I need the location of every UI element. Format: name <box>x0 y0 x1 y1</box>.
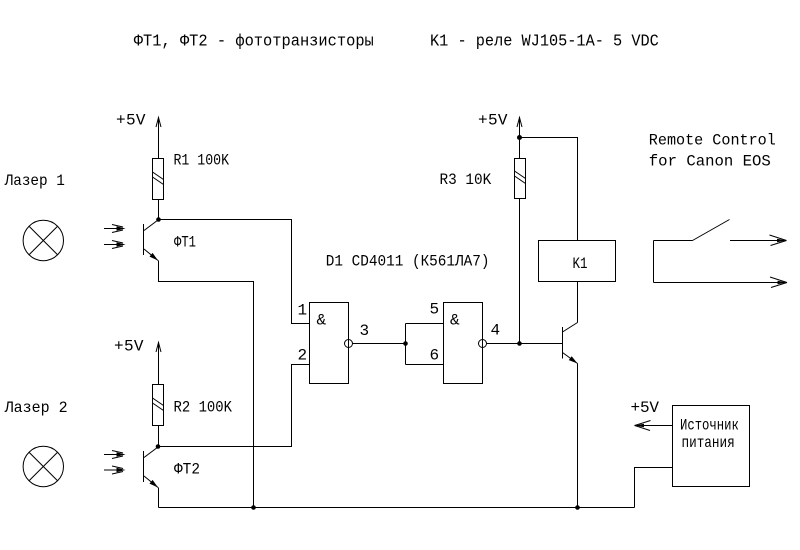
lamp 2 (laser source) <box>23 446 63 486</box>
wire gate2 output to transistor base <box>487 343 563 345</box>
light arrow 2 to ФТ2 <box>104 466 126 474</box>
wire ФТ1 emitter to ground rail <box>159 261 254 508</box>
wire power supply to ground rail <box>635 468 673 508</box>
wire R1 bottom to collector node <box>158 200 160 220</box>
output arrow bottom <box>654 277 788 288</box>
ground rail <box>159 507 635 509</box>
light arrow 2 to ФТ1 <box>104 241 126 249</box>
svg-text:1: 1 <box>298 302 308 320</box>
svg-text:4: 4 <box>491 322 501 340</box>
svg-text:&: & <box>317 312 327 330</box>
light arrow 1 to ФТ2 <box>104 451 126 459</box>
lamp 1 (laser source) <box>23 220 63 260</box>
svg-text:+5V: +5V <box>116 112 146 130</box>
resistor R3 <box>515 159 526 199</box>
svg-text:ФТ2: ФТ2 <box>174 461 200 479</box>
wire node to pins 5 and 6 <box>405 324 407 365</box>
switch contact (relay output) <box>654 220 730 283</box>
svg-text:Remote Control: Remote Control <box>649 132 776 150</box>
node dot gate1 out / gate2 in <box>403 341 408 346</box>
phototransistor ФТ2 <box>144 447 159 488</box>
NAND gate U1B box <box>444 303 483 384</box>
svg-text:Лазер 1: Лазер 1 <box>4 172 65 190</box>
resistor R1 <box>153 159 164 200</box>
transistor Q1 <box>563 323 578 364</box>
svg-text:+5V: +5V <box>114 338 144 356</box>
svg-text:3: 3 <box>360 322 370 340</box>
svg-text:питания: питания <box>682 434 735 452</box>
wire R3 bottom to base node <box>519 199 521 344</box>
svg-text:for Canon EOS: for Canon EOS <box>649 153 771 171</box>
node dot R2/ФТ2 collector <box>156 444 161 449</box>
rail node dot at Q1 emitter <box>575 505 580 510</box>
svg-text:ФТ1, ФТ2 - фототранзисторы: ФТ1, ФТ2 - фототранзисторы <box>134 33 374 52</box>
svg-text:ФТ1: ФТ1 <box>174 234 196 252</box>
node dot +5V / relay feed <box>517 135 522 140</box>
wire ФТ2 collector node to gate pin 2 <box>158 365 310 447</box>
rail node dot at ФТ1 emitter <box>251 505 256 510</box>
svg-text:&: & <box>450 312 460 330</box>
+5V arrow above R2 <box>156 342 161 385</box>
+5V arrow above R3 <box>517 117 522 159</box>
output arrow top <box>730 235 787 246</box>
wire gate1 output to node <box>353 343 406 345</box>
wire Q1 emitter to ground rail <box>577 364 579 508</box>
light arrow 1 to ФТ1 <box>104 225 126 233</box>
svg-text:R3 10K: R3 10K <box>440 171 492 189</box>
svg-text:R1 100K: R1 100K <box>174 152 230 170</box>
wire ФТ2 emitter to ground rail <box>158 488 160 508</box>
gate U1B output bubble <box>479 340 487 348</box>
power supply box <box>673 406 750 487</box>
wire R2 bottom to collector node <box>158 426 160 447</box>
svg-text:+5V: +5V <box>631 399 660 417</box>
node dot R1/ФТ1 collector <box>156 217 161 222</box>
svg-text:D1 CD4011 (К561ЛА7): D1 CD4011 (К561ЛА7) <box>326 253 490 271</box>
relay K1 box <box>539 241 616 282</box>
svg-text:K1 - реле WJ105-1A- 5 VDC: K1 - реле WJ105-1A- 5 VDC <box>430 33 659 52</box>
wire relay bottom to transistor collector <box>577 282 579 323</box>
power supply +5V arrow <box>635 421 673 431</box>
svg-text:K1: K1 <box>573 255 588 273</box>
svg-text:2: 2 <box>298 347 308 365</box>
svg-text:Лазер 2: Лазер 2 <box>4 399 68 417</box>
svg-text:5: 5 <box>430 301 440 319</box>
gate U1A output bubble <box>345 340 353 348</box>
wire ФТ1 collector node to gate pin 1 <box>159 220 310 324</box>
NAND gate U1A box <box>310 303 349 384</box>
node dot R3 / base <box>517 341 522 346</box>
svg-text:6: 6 <box>430 347 440 365</box>
svg-text:+5V: +5V <box>478 112 508 130</box>
+5V arrow above R1 <box>156 117 161 159</box>
phototransistor ФТ1 <box>144 220 159 261</box>
svg-text:R2 100K: R2 100K <box>174 399 233 417</box>
svg-text:Источник: Источник <box>680 417 739 435</box>
resistor R2 <box>153 385 164 426</box>
wire +5V node to relay top <box>520 138 578 241</box>
